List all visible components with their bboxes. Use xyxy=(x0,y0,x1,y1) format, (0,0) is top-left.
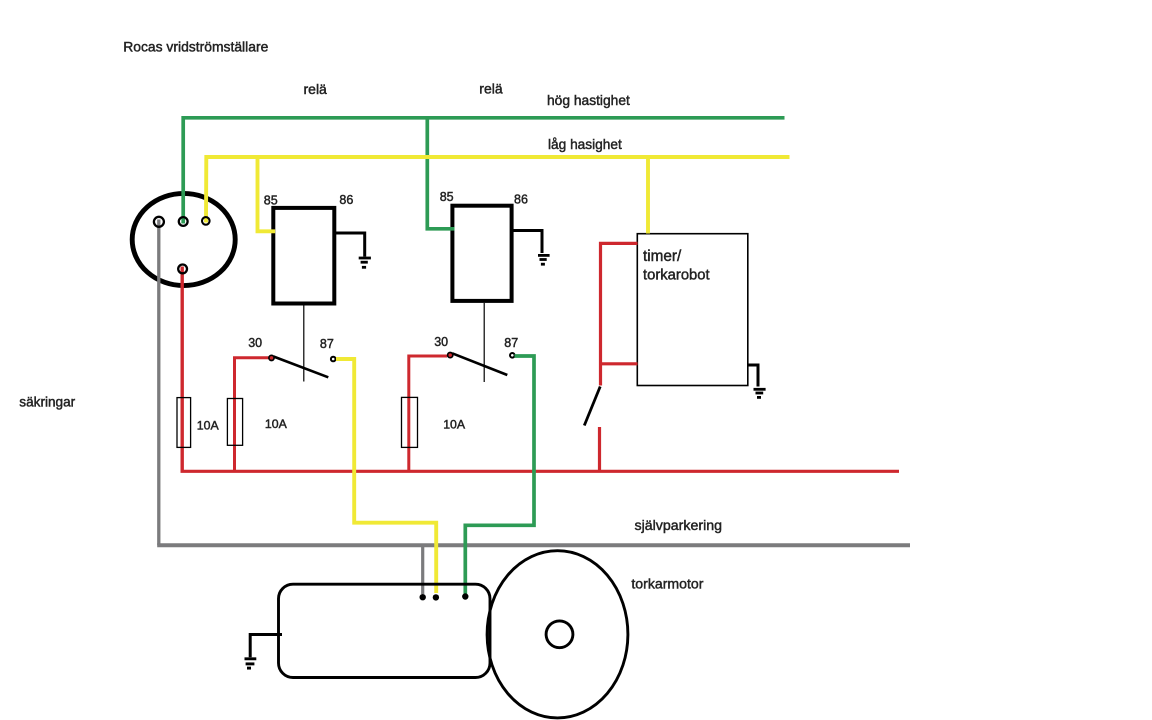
motor terminal pin 2 (low) xyxy=(433,594,439,600)
rotary switch SW1 body xyxy=(132,193,235,285)
svg-text:85: 85 xyxy=(264,193,278,207)
SW1 pin 2 (high) xyxy=(179,217,188,226)
wire: timer to ground xyxy=(748,365,758,387)
ground symbol (timer) xyxy=(754,389,766,397)
motor terminal pin 1 (park) xyxy=(420,594,426,600)
svg-text:Rocas vridströmställare: Rocas vridströmställare xyxy=(123,38,268,54)
svg-text:10A: 10A xyxy=(443,418,466,432)
motor shaft xyxy=(546,621,573,648)
ground symbol (K2) xyxy=(538,255,550,264)
SW1 pin 1 (park) xyxy=(154,217,164,227)
svg-text:85: 85 xyxy=(440,190,454,204)
timer switch blade xyxy=(584,387,600,426)
svg-text:86: 86 xyxy=(339,193,353,207)
wire: green high-speed bus from SW1 pin 2 xyxy=(183,118,784,224)
svg-text:86: 86 xyxy=(514,193,528,207)
wire: green K2 87 to motor (high speed) xyxy=(465,356,534,594)
relay K2 coil box xyxy=(452,206,511,301)
ground symbol (K1) xyxy=(359,258,371,267)
svg-text:självparkering: självparkering xyxy=(635,518,723,534)
K1 terminal 87 xyxy=(331,357,336,362)
svg-text:säkringar: säkringar xyxy=(19,395,75,410)
svg-text:torkarobot: torkarobot xyxy=(643,268,710,284)
motor body xyxy=(279,584,491,677)
SW1 pin 3 (low) xyxy=(202,217,210,225)
wire: yellow branch to timer input xyxy=(646,158,650,234)
motor gear housing xyxy=(487,551,628,718)
motor terminal pin 3 (high) xyxy=(462,593,468,599)
wire: green branch to K2 pin 85 xyxy=(427,119,454,229)
wire: red branch through fuse F2 to K1 pin 30 xyxy=(235,358,269,471)
ground symbol (motor) xyxy=(245,659,257,668)
fuse F2 xyxy=(227,399,242,446)
K2 terminal 30 xyxy=(448,353,453,358)
wire: red branch to timer (upper) xyxy=(601,243,638,385)
svg-text:relä: relä xyxy=(304,81,328,97)
svg-text:10A: 10A xyxy=(265,417,288,431)
timer box xyxy=(637,234,748,386)
wire: motor to ground xyxy=(250,635,282,658)
wire: gray park bus horizontal xyxy=(157,543,910,547)
fuse F3 xyxy=(402,397,418,447)
wire: gray drop to motor pin 1 xyxy=(421,547,424,594)
svg-text:relä: relä xyxy=(479,81,503,97)
svg-text:87: 87 xyxy=(504,336,518,350)
relay K1 coil box xyxy=(273,208,334,304)
svg-text:hög hastighet: hög hastighet xyxy=(547,93,630,108)
wire: K2 pin 86 to ground xyxy=(512,231,542,254)
K2 terminal 87 xyxy=(510,353,515,358)
wire: red below timer switch to bus xyxy=(598,427,601,472)
svg-text:87: 87 xyxy=(320,337,334,351)
svg-text:30: 30 xyxy=(248,336,262,350)
wire: yellow K1 87 to motor (low speed) xyxy=(336,359,436,593)
wire: K1 pin 86 to ground xyxy=(334,233,365,257)
wire: yellow branch to K1 pin 85 xyxy=(258,158,276,231)
wire: gray park feedback from SW1 pin 1 xyxy=(157,220,160,546)
wire: red supply from SW1 pin 4 through fuse F1 xyxy=(180,267,183,472)
wire: red timer lower tap xyxy=(601,362,638,365)
svg-text:låg hasighet: låg hasighet xyxy=(548,137,622,152)
K1 terminal 30 xyxy=(269,355,274,360)
wire: yellow low-speed bus from SW1 pin 3 xyxy=(206,157,790,223)
svg-text:torkarmotor: torkarmotor xyxy=(631,576,703,592)
fuse F1 xyxy=(177,398,191,448)
svg-text:timer/: timer/ xyxy=(643,248,682,265)
svg-text:30: 30 xyxy=(434,335,448,349)
wire: red supply bus xyxy=(181,470,900,473)
wire: red branch through fuse F3 to K2 pin 30 xyxy=(409,356,447,471)
K2 contact blade xyxy=(452,353,507,375)
wire: K1 coil to contact arm (thin) xyxy=(303,306,305,382)
K1 contact blade xyxy=(274,357,329,378)
wire: K2 coil to contact arm (thin) xyxy=(483,303,485,382)
SW1 pin 4 (supply) xyxy=(178,265,187,274)
svg-text:10A: 10A xyxy=(197,418,220,432)
